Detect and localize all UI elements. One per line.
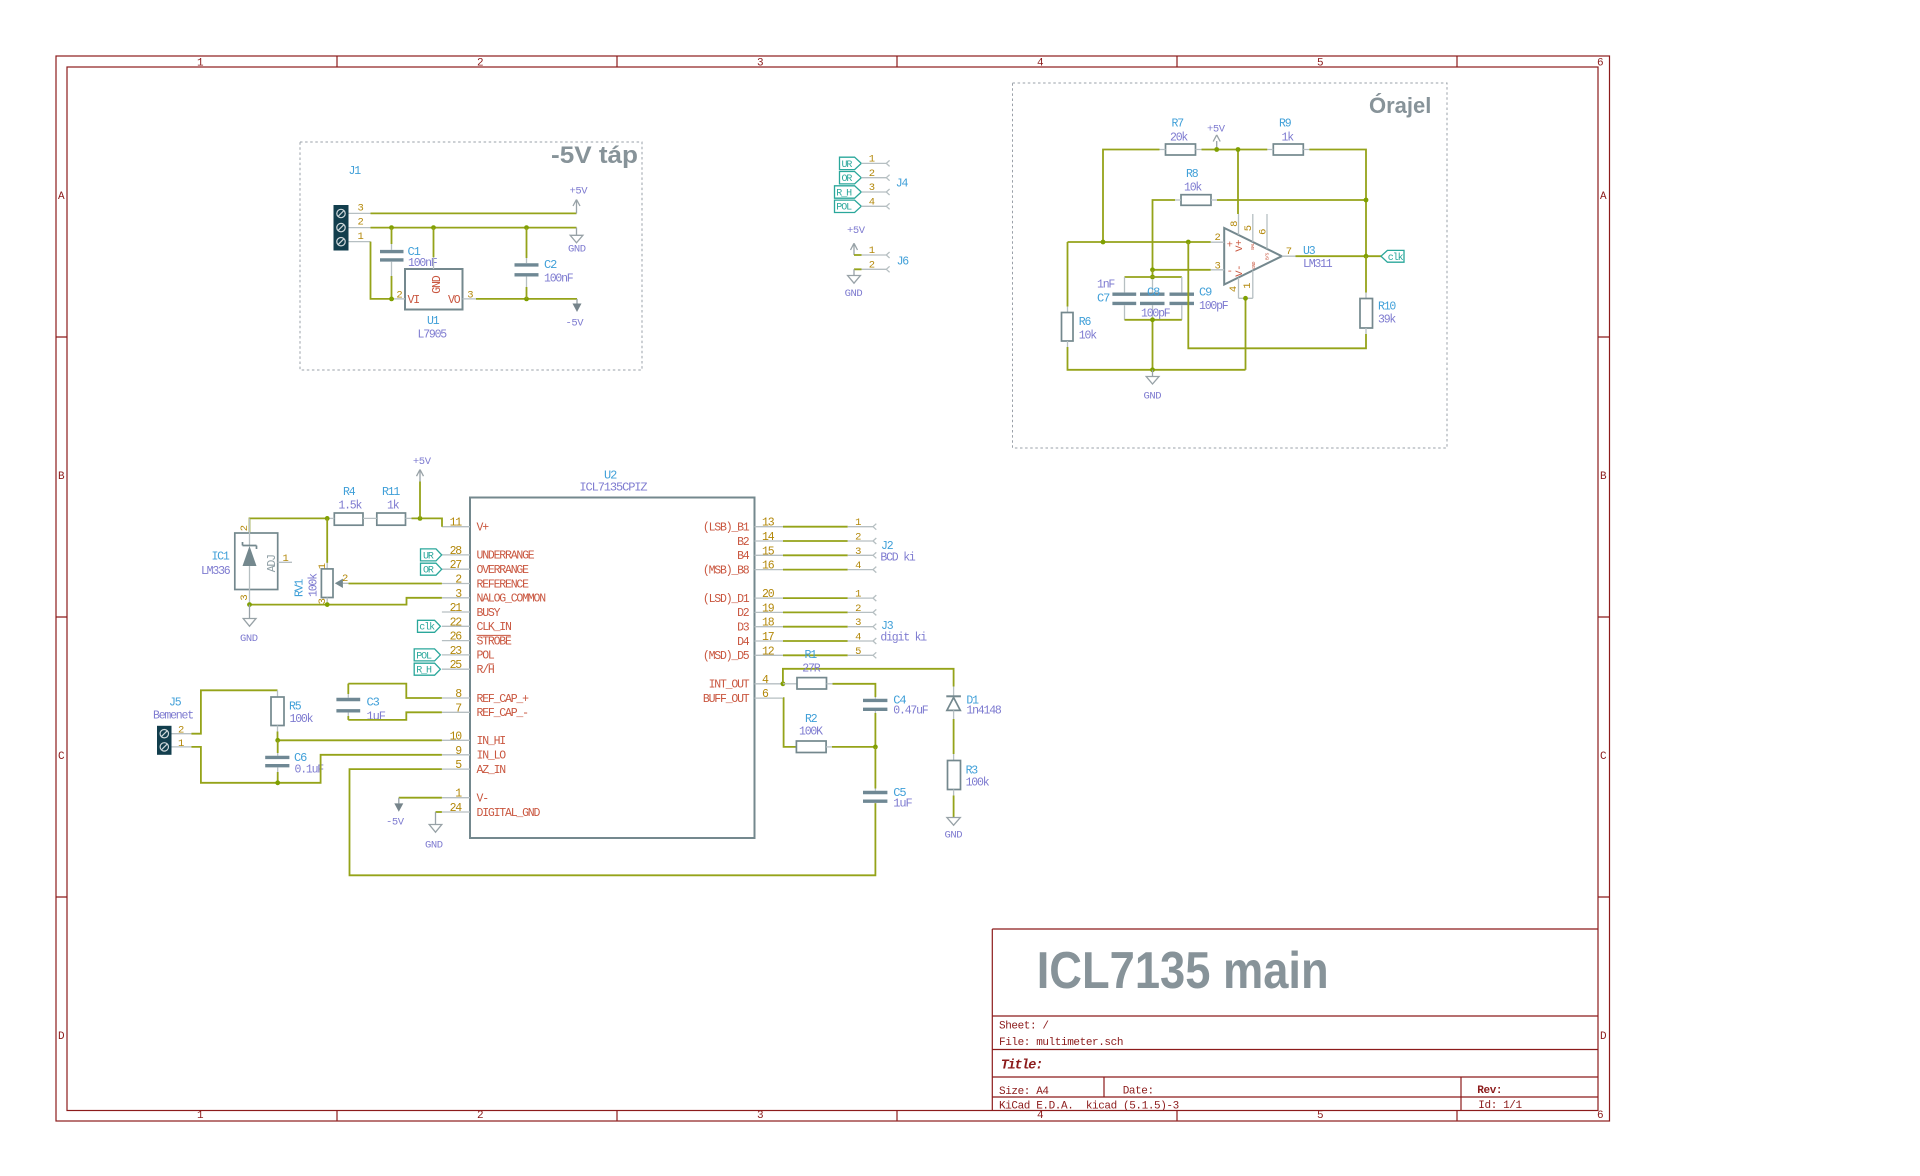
svg-text:3: 3 xyxy=(855,546,861,558)
svg-text:(MSD)_D5: (MSD)_D5 xyxy=(703,650,750,663)
svg-text:REFERENCE: REFERENCE xyxy=(477,578,530,591)
svg-text:27: 27 xyxy=(450,559,462,572)
svg-text:GND: GND xyxy=(945,830,963,842)
svg-text:6: 6 xyxy=(1257,229,1269,235)
wire AZ_IN loop to C5 bottom xyxy=(350,769,876,875)
resistor R1 xyxy=(783,649,833,689)
svg-text:ICL7135CPIZ: ICL7135CPIZ xyxy=(579,481,647,495)
IC U2 ICL7135CPIZ xyxy=(470,469,755,839)
wire J1 pin3 to +5V xyxy=(371,212,577,214)
global label POL (U2) xyxy=(414,649,440,662)
svg-text:NALOG_COMMON: NALOG_COMMON xyxy=(477,593,546,606)
svg-text:2: 2 xyxy=(358,217,364,229)
svg-text:(MSB)_B8: (MSB)_B8 xyxy=(703,564,750,577)
ground rail wire (IC1/RV1) xyxy=(250,598,442,605)
svg-text:5: 5 xyxy=(1317,58,1323,70)
svg-text:D: D xyxy=(1600,1031,1607,1043)
svg-text:1: 1 xyxy=(869,154,875,166)
svg-text:OR: OR xyxy=(423,566,434,577)
ground symbol GND (J6) xyxy=(845,269,863,300)
wire R7 left to pin2 rail xyxy=(1103,150,1160,243)
connector J2 pins xyxy=(783,517,916,572)
capacitor bottom bus wire xyxy=(1125,320,1182,370)
section Orajel dashed outline xyxy=(1013,83,1448,448)
svg-text:14: 14 xyxy=(762,531,775,544)
svg-text:GND: GND xyxy=(568,243,586,255)
connector J5 xyxy=(153,697,193,755)
resistor R6 xyxy=(1062,242,1153,370)
resistor R2 xyxy=(796,713,832,753)
sheet frame outer border xyxy=(56,56,1610,1121)
wire +5V rail to op-amp pin8 xyxy=(1237,150,1239,215)
wire pin3 vertical to cap bus xyxy=(1152,270,1154,277)
svg-text:File: multimeter.sch: File: multimeter.sch xyxy=(999,1037,1123,1049)
svg-text:BUFF_OUT: BUFF_OUT xyxy=(703,693,750,706)
svg-text:KiCad E.D.A. kicad (5.1.5)-3: KiCad E.D.A. kicad (5.1.5)-3 xyxy=(999,1101,1179,1113)
svg-text:R4: R4 xyxy=(343,486,356,499)
svg-text:LM311: LM311 xyxy=(1303,258,1333,271)
wire R5 bottom / IN_HI rail xyxy=(278,732,442,741)
svg-text:VI: VI xyxy=(408,294,420,307)
svg-text:-5V: -5V xyxy=(386,816,405,828)
wire V+ rail xyxy=(250,518,329,533)
connector J4 pins xyxy=(861,154,908,210)
svg-text:B: B xyxy=(1600,471,1607,483)
svg-text:100pF: 100pF xyxy=(1141,308,1171,321)
svg-text:D2: D2 xyxy=(737,607,750,620)
svg-text:V-: V- xyxy=(477,793,489,806)
wire R8 left to pin3 vertical xyxy=(1153,200,1176,270)
svg-text:REF_CAP_+: REF_CAP_+ xyxy=(477,693,530,706)
wire C3 bottom to REF_CAP_- xyxy=(348,712,442,720)
svg-text:CLK_IN: CLK_IN xyxy=(477,621,512,634)
svg-text:R_H: R_H xyxy=(416,666,432,677)
power +5V symbol xyxy=(570,186,589,214)
wire R1 right to C4 top xyxy=(833,684,876,697)
wire op-amp pins 4,1 to ground rail xyxy=(1245,298,1247,370)
svg-text:R/H: R/H xyxy=(477,664,494,677)
svg-text:19: 19 xyxy=(762,602,775,615)
svg-text:21: 21 xyxy=(450,602,463,615)
resistor R10 xyxy=(1360,256,1396,334)
svg-text:(LSD)_D1: (LSD)_D1 xyxy=(703,593,750,606)
svg-text:100k: 100k xyxy=(308,573,321,597)
svg-text:4: 4 xyxy=(1037,58,1044,70)
svg-text:C: C xyxy=(58,751,65,763)
capacitor C9 xyxy=(1170,277,1229,320)
svg-text:C9: C9 xyxy=(1199,286,1212,300)
svg-text:Sheet: /: Sheet: / xyxy=(999,1021,1049,1033)
global label OR (U2) xyxy=(421,563,442,576)
svg-text:13: 13 xyxy=(762,517,775,530)
power +5V symbol (Orajel) xyxy=(1207,124,1226,150)
global label clk (Orajel output) xyxy=(1381,250,1404,263)
svg-text:POL: POL xyxy=(477,650,495,663)
svg-text:D3: D3 xyxy=(737,622,750,635)
svg-text:5: 5 xyxy=(855,646,861,658)
svg-text:3: 3 xyxy=(869,182,875,194)
svg-text:Órajel: Órajel xyxy=(1369,93,1431,118)
svg-text:B4: B4 xyxy=(737,550,750,563)
connector J3 pins xyxy=(783,589,927,659)
connector J1 xyxy=(334,165,371,251)
capacitor C7 xyxy=(1097,277,1136,320)
svg-text:3: 3 xyxy=(467,290,473,302)
svg-text:D4: D4 xyxy=(737,636,750,649)
wire pin3 rail xyxy=(1153,269,1211,271)
svg-text:C7: C7 xyxy=(1097,292,1110,306)
svg-text:GND: GND xyxy=(845,288,863,300)
op-amp U3 LM311 xyxy=(1211,214,1333,298)
svg-text:UNDERRANGE: UNDERRANGE xyxy=(477,550,535,563)
svg-text:-5V táp: -5V táp xyxy=(551,142,638,169)
svg-text:17: 17 xyxy=(762,631,774,644)
regulator U1 L7905 xyxy=(394,257,476,341)
svg-text:RV1: RV1 xyxy=(294,579,307,597)
diode D1 1n4148 xyxy=(946,687,1002,755)
svg-text:1: 1 xyxy=(283,553,289,565)
svg-text:28: 28 xyxy=(450,545,463,558)
svg-text:1uF: 1uF xyxy=(367,710,386,724)
junction at C2 bottom xyxy=(524,297,529,302)
svg-text:100k: 100k xyxy=(966,777,990,790)
wire U1 GND pin up to rail xyxy=(433,228,435,258)
capacitor C5 xyxy=(863,747,913,811)
capacitor C3 xyxy=(336,684,385,724)
svg-text:3: 3 xyxy=(239,595,251,601)
svg-text:7: 7 xyxy=(455,702,461,715)
svg-text:POL: POL xyxy=(416,651,432,662)
svg-text:1k: 1k xyxy=(1282,132,1295,145)
svg-text:+5V: +5V xyxy=(413,456,432,468)
U2 right pin stubs xyxy=(755,527,784,698)
svg-text:B/S: B/S xyxy=(1264,252,1270,260)
svg-text:(LSB)_B1: (LSB)_B1 xyxy=(703,522,750,535)
svg-text:0.47uF: 0.47uF xyxy=(893,704,929,717)
title block border xyxy=(992,929,1598,1111)
svg-text:Title:: Title: xyxy=(1001,1059,1042,1074)
svg-text:2: 2 xyxy=(1215,232,1221,244)
svg-text:1: 1 xyxy=(197,58,204,70)
svg-text:1uF: 1uF xyxy=(893,797,912,811)
svg-text:ICL7135 main: ICL7135 main xyxy=(1037,942,1329,1000)
svg-text:GND: GND xyxy=(431,275,444,293)
svg-text:100nF: 100nF xyxy=(544,272,574,285)
global label UR (J4) xyxy=(840,157,862,171)
svg-text:2: 2 xyxy=(239,525,251,531)
svg-text:AZ_IN: AZ_IN xyxy=(477,764,506,777)
svg-text:2: 2 xyxy=(477,58,483,70)
svg-text:20k: 20k xyxy=(1170,132,1188,145)
ground symbol GND (R3) xyxy=(945,818,963,842)
svg-text:OR: OR xyxy=(842,174,853,185)
junction at pin8 rail xyxy=(1236,147,1241,152)
power -5V symbol xyxy=(566,299,585,330)
global label UR (U2) xyxy=(421,549,442,562)
svg-text:1k: 1k xyxy=(387,500,400,513)
svg-text:Bemenet: Bemenet xyxy=(153,710,193,723)
wire J5 pin2 to R5 top xyxy=(191,690,277,733)
svg-text:1: 1 xyxy=(358,231,364,243)
ground symbol GND (right of -5V tap) xyxy=(568,228,586,256)
svg-text:R2: R2 xyxy=(805,713,818,726)
svg-text:1: 1 xyxy=(1242,283,1254,289)
svg-text:VO: VO xyxy=(448,294,461,307)
resistor R11 xyxy=(363,486,412,525)
U2 left pin stubs xyxy=(442,527,470,812)
svg-text:GND: GND xyxy=(1251,261,1257,269)
wire RV1 wiper to REFERENCE xyxy=(349,583,442,585)
capacitor C2 xyxy=(515,228,574,299)
junction at +5V Orajel xyxy=(1214,147,1219,152)
svg-text:10k: 10k xyxy=(1079,330,1097,343)
resistor R9 xyxy=(1267,118,1309,156)
svg-text:+: + xyxy=(1227,239,1233,251)
global label OR (J4) xyxy=(840,172,862,186)
junction dots on pin2 rail xyxy=(389,225,394,230)
svg-text:23: 23 xyxy=(450,645,463,658)
svg-text:11: 11 xyxy=(450,517,463,530)
svg-text:STROBE: STROBE xyxy=(477,635,513,648)
svg-text:12: 12 xyxy=(762,645,775,658)
svg-text:2: 2 xyxy=(342,573,348,585)
svg-text:1n4148: 1n4148 xyxy=(966,705,1002,718)
frame row ticks left xyxy=(56,337,67,897)
svg-text:UR: UR xyxy=(423,551,434,562)
svg-text:-5V: -5V xyxy=(566,318,585,330)
capacitor C8 xyxy=(1140,279,1171,321)
wire BUFF_OUT down to R2 xyxy=(783,698,796,747)
svg-text:B2: B2 xyxy=(737,536,750,549)
svg-text:2: 2 xyxy=(396,290,402,302)
svg-text:BCD ki: BCD ki xyxy=(880,552,916,565)
svg-text:10k: 10k xyxy=(1184,182,1202,195)
global label clk (U2) xyxy=(418,620,441,633)
svg-text:INT_OUT: INT_OUT xyxy=(709,679,750,692)
svg-text:BUSY: BUSY xyxy=(477,607,501,620)
global label POL (J4) xyxy=(835,200,862,214)
svg-text:5: 5 xyxy=(1317,1110,1323,1122)
svg-text:1: 1 xyxy=(855,517,861,529)
ground symbol GND (Orajel) xyxy=(1144,370,1162,403)
svg-text:1: 1 xyxy=(855,589,861,601)
svg-text:BAL: BAL xyxy=(1250,242,1256,250)
svg-text:J5: J5 xyxy=(169,697,182,710)
svg-text:39k: 39k xyxy=(1378,314,1396,327)
svg-text:+5V: +5V xyxy=(1207,124,1226,136)
wire U1 VO to -5V xyxy=(476,298,577,300)
capacitor C6 xyxy=(265,740,324,783)
wire R8 right to R9 vertical xyxy=(1217,199,1366,201)
svg-text:Rev:: Rev: xyxy=(1477,1085,1502,1097)
wire INT_OUT up and over to D1 xyxy=(783,669,954,687)
potentiometer RV1 xyxy=(294,518,349,604)
global label R_H (J4) xyxy=(835,186,862,200)
wire J1 pin2 GND rail xyxy=(371,227,577,229)
svg-text:3: 3 xyxy=(757,1110,763,1122)
top +5V rail wire xyxy=(1202,149,1268,151)
wire R9 right down to output node xyxy=(1309,150,1366,257)
frame column ticks top xyxy=(337,56,1457,67)
svg-text:GND: GND xyxy=(1144,391,1162,403)
wire R2 right to node xyxy=(832,746,875,748)
svg-text:J6: J6 xyxy=(897,255,910,268)
junction R8 right xyxy=(1364,198,1369,203)
svg-text:1.5k: 1.5k xyxy=(338,500,362,513)
ground symbol GND (IC1) xyxy=(240,605,258,645)
svg-text:POL: POL xyxy=(836,203,852,214)
voltage reference IC1 LM336 xyxy=(201,518,292,604)
svg-text:DIGITAL_GND: DIGITAL_GND xyxy=(477,807,541,820)
junction at U1 VI xyxy=(389,297,394,302)
capacitor C1 xyxy=(380,228,438,299)
svg-text:1nF: 1nF xyxy=(1097,279,1115,292)
svg-text:D: D xyxy=(58,1031,65,1043)
svg-text:+5V: +5V xyxy=(570,186,589,198)
svg-text:C3: C3 xyxy=(367,696,380,710)
svg-text:C2: C2 xyxy=(544,258,557,272)
svg-text:18: 18 xyxy=(762,617,775,630)
frame row ticks right xyxy=(1598,337,1610,897)
svg-text:10: 10 xyxy=(450,730,463,743)
svg-text:22: 22 xyxy=(450,616,463,629)
wire C3 top to REF_CAP_+ xyxy=(348,684,442,698)
svg-text:16: 16 xyxy=(762,560,775,573)
svg-text:GND: GND xyxy=(425,840,443,852)
svg-text:20: 20 xyxy=(762,588,775,601)
svg-text:3: 3 xyxy=(757,58,763,70)
svg-text:B: B xyxy=(58,471,65,483)
svg-text:R10: R10 xyxy=(1378,301,1396,314)
svg-text:A: A xyxy=(1600,191,1607,203)
capacitor C4 xyxy=(863,694,929,747)
svg-text:1: 1 xyxy=(869,245,875,257)
connector J6 pins xyxy=(854,245,909,272)
power +5V symbol (U2) xyxy=(413,456,432,518)
svg-text:4: 4 xyxy=(1228,286,1240,292)
svg-text:2: 2 xyxy=(869,260,875,272)
svg-text:R5: R5 xyxy=(289,701,302,714)
U2 left pin numbers xyxy=(450,517,463,815)
wire J1 pin1 to U1 VI xyxy=(371,242,395,299)
svg-text:3: 3 xyxy=(1215,260,1221,272)
resistor R3 xyxy=(948,754,990,818)
svg-text:REF_CAP_-: REF_CAP_- xyxy=(477,707,529,720)
svg-text:IN_HI: IN_HI xyxy=(477,735,506,748)
svg-text:1: 1 xyxy=(197,1110,204,1122)
svg-text:6: 6 xyxy=(1597,1110,1603,1122)
svg-text:R11: R11 xyxy=(382,486,400,499)
feedback wire pin2 to output via R10 xyxy=(1188,242,1366,348)
svg-text:LM336: LM336 xyxy=(201,565,231,578)
svg-text:Size: A4: Size: A4 xyxy=(999,1086,1049,1098)
svg-text:3: 3 xyxy=(358,203,364,215)
svg-text:digit ki: digit ki xyxy=(880,632,927,645)
svg-text:6: 6 xyxy=(1597,58,1603,70)
svg-text:Id: 1/1: Id: 1/1 xyxy=(1478,1100,1522,1112)
ground rail wire xyxy=(1153,369,1246,371)
ground symbol GND (U2 DIGITAL_GND) xyxy=(425,812,443,852)
svg-text:R1: R1 xyxy=(805,649,818,662)
svg-text:8: 8 xyxy=(1229,221,1241,227)
U2 right pin names xyxy=(703,522,750,706)
svg-text:25: 25 xyxy=(450,659,463,672)
svg-text:1: 1 xyxy=(317,563,329,569)
svg-text:26: 26 xyxy=(450,631,463,644)
svg-text:R_H: R_H xyxy=(836,188,852,199)
svg-text:4: 4 xyxy=(855,560,861,572)
resistor R7 xyxy=(1160,118,1202,156)
svg-text:V+: V+ xyxy=(477,522,490,535)
wire output to clk node xyxy=(1296,255,1382,257)
svg-text:7: 7 xyxy=(1286,246,1292,258)
svg-text:4: 4 xyxy=(855,632,861,644)
svg-text:100pF: 100pF xyxy=(1199,300,1229,313)
svg-text:IC1: IC1 xyxy=(211,551,229,564)
svg-text:IN_LO: IN_LO xyxy=(477,750,507,763)
svg-text:R6: R6 xyxy=(1079,316,1092,329)
power -5V symbol (U2) xyxy=(386,798,442,829)
svg-text:C: C xyxy=(1600,751,1607,763)
svg-text:GND: GND xyxy=(240,633,258,645)
resistor R5 xyxy=(271,690,314,731)
svg-text:ADJ: ADJ xyxy=(266,555,279,572)
svg-text:clk: clk xyxy=(1388,252,1404,264)
svg-text:Date:: Date: xyxy=(1123,1086,1154,1098)
svg-text:2: 2 xyxy=(869,168,875,180)
svg-text:V-: V- xyxy=(1234,265,1246,277)
svg-text:A: A xyxy=(58,191,65,203)
svg-text:-: - xyxy=(1227,266,1233,278)
svg-text:2: 2 xyxy=(855,603,861,615)
svg-text:100k: 100k xyxy=(290,713,314,726)
svg-text:15: 15 xyxy=(762,545,775,558)
svg-text:J4: J4 xyxy=(896,178,909,191)
svg-text:V+: V+ xyxy=(1234,240,1246,252)
section -5V tap dashed outline xyxy=(300,142,642,370)
global label R_H (U2) xyxy=(414,663,440,676)
svg-text:2: 2 xyxy=(855,532,861,544)
svg-text:+5V: +5V xyxy=(847,225,866,237)
sheet frame inner border xyxy=(67,67,1598,1111)
svg-text:UR: UR xyxy=(842,160,853,171)
svg-text:100K: 100K xyxy=(799,726,823,739)
resistor R4 xyxy=(328,486,363,525)
node INT_OUT junction xyxy=(781,681,786,686)
svg-text:2: 2 xyxy=(178,725,184,737)
svg-text:2: 2 xyxy=(477,1110,483,1122)
svg-text:OVERRANGE: OVERRANGE xyxy=(477,564,530,577)
svg-text:R7: R7 xyxy=(1172,118,1184,131)
svg-text:R9: R9 xyxy=(1279,118,1292,131)
capacitor top bus wire xyxy=(1125,276,1182,278)
wire pin2 rail xyxy=(1068,241,1211,243)
svg-text:J1: J1 xyxy=(349,165,362,178)
svg-text:27R: 27R xyxy=(802,662,820,675)
svg-text:1: 1 xyxy=(178,738,184,750)
svg-text:24: 24 xyxy=(450,802,463,815)
svg-text:clk: clk xyxy=(419,622,435,634)
resistor R8 xyxy=(1175,168,1217,205)
svg-text:5: 5 xyxy=(1243,225,1255,231)
svg-text:R8: R8 xyxy=(1186,168,1199,181)
svg-text:C8: C8 xyxy=(1147,286,1160,300)
frame column ticks bottom xyxy=(337,1111,1457,1122)
svg-text:U1: U1 xyxy=(427,315,440,328)
svg-text:3: 3 xyxy=(855,617,861,629)
wire J5 pin1 / C6 bottom / IN_LO loop xyxy=(191,747,442,783)
svg-text:4: 4 xyxy=(869,197,875,209)
